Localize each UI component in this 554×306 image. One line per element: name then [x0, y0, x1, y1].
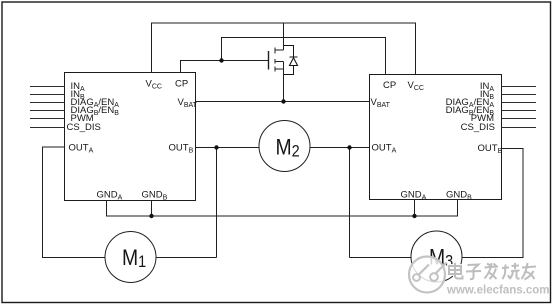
watermark url www.elecfans.com: [446, 285, 549, 297]
U2 pin label DIAGA/ENA: [446, 97, 495, 109]
U1 input pin leads INA..CS_DIS: [30, 87, 65, 128]
U2 input pin leads INA..CS_DIS: [502, 87, 537, 128]
wire U1 OUTA to motor M1: [43, 147, 106, 258]
U1 pin label VBAT: [178, 97, 198, 109]
junction U1 OUTB: [214, 145, 218, 149]
U1 pin label DIAGA/ENA: [71, 97, 120, 109]
wire M2 to U2 OUTA and M3: [310, 148, 411, 258]
U1 pin label INB: [71, 89, 86, 101]
U2 pin label DIAGB/ENB: [446, 105, 495, 117]
watermark hanzi 子: [466, 265, 481, 280]
U2 pin label GNDA: [401, 190, 427, 202]
svg-text:CP: CP: [175, 79, 188, 90]
junction CP/gate: [219, 58, 223, 62]
ground rail: [107, 200, 458, 217]
motor M1: [105, 232, 156, 283]
U2 pin label INA: [480, 81, 495, 93]
junction VBAT / Q1 source: [281, 99, 285, 103]
motor M2: [259, 121, 310, 172]
U2 pin label VBAT: [371, 97, 391, 109]
junction GNDA U2: [412, 214, 416, 218]
U2 pin label OUTB: [478, 143, 503, 155]
U2 pin label OUTA: [372, 143, 397, 155]
svg-text:CS_DIS: CS_DIS: [461, 122, 495, 133]
watermark hanzi 友: [522, 263, 537, 280]
U1 pin label OUTB: [169, 143, 194, 155]
U2 pin label CP: [383, 80, 396, 91]
transistor Q1 P-channel MOSFET: [269, 23, 284, 102]
watermark hanzi 烧: [502, 263, 520, 279]
watermark hanzi 电: [449, 263, 463, 279]
wire U2 OUTB to motor M3: [462, 149, 523, 258]
U2 pin label INB: [480, 89, 495, 101]
wire U1 OUTB to motor M2 and M1: [156, 148, 259, 258]
diode D1 (body diode of Q1): [284, 46, 298, 75]
watermark hanzi 发: [485, 263, 499, 279]
U1 pin label OUTA: [69, 143, 94, 155]
U1 pin label VCC: [146, 79, 162, 91]
U1 pin label GNDB: [142, 190, 168, 202]
wire VBAT net: [196, 101, 370, 103]
wire CP net (U1 CP to gate and U2 CP): [181, 38, 386, 75]
svg-text:CP: CP: [383, 80, 396, 91]
junction GNDB U1: [149, 214, 153, 218]
watermark logo ring: [409, 257, 447, 293]
U2 pin label GNDB: [446, 190, 472, 202]
U1 pin label PWM: [71, 113, 94, 124]
svg-text:www.elecfans.com: www.elecfans.com: [446, 285, 549, 297]
U1 pin label CP: [175, 79, 188, 90]
U2 pin label PWM: [471, 113, 494, 124]
U1 pin label INA: [71, 81, 86, 93]
IC U1 (left motor driver) body: [65, 73, 196, 201]
svg-text:CS_DIS: CS_DIS: [67, 122, 101, 133]
U2 pin label VCC: [408, 80, 424, 92]
U2 pin label CS_DIS: [461, 122, 495, 133]
U1 pin label DIAGB/ENB: [71, 105, 120, 117]
motor M3: [411, 231, 462, 282]
U1 pin label CS_DIS: [67, 122, 101, 133]
junction U2 OUTA: [347, 145, 351, 149]
wire VCC net (U1 Vcc to U2 Vcc): [152, 23, 416, 75]
U1 pin label GNDA: [97, 190, 123, 202]
IC U2 (right motor driver) body: [370, 75, 502, 200]
